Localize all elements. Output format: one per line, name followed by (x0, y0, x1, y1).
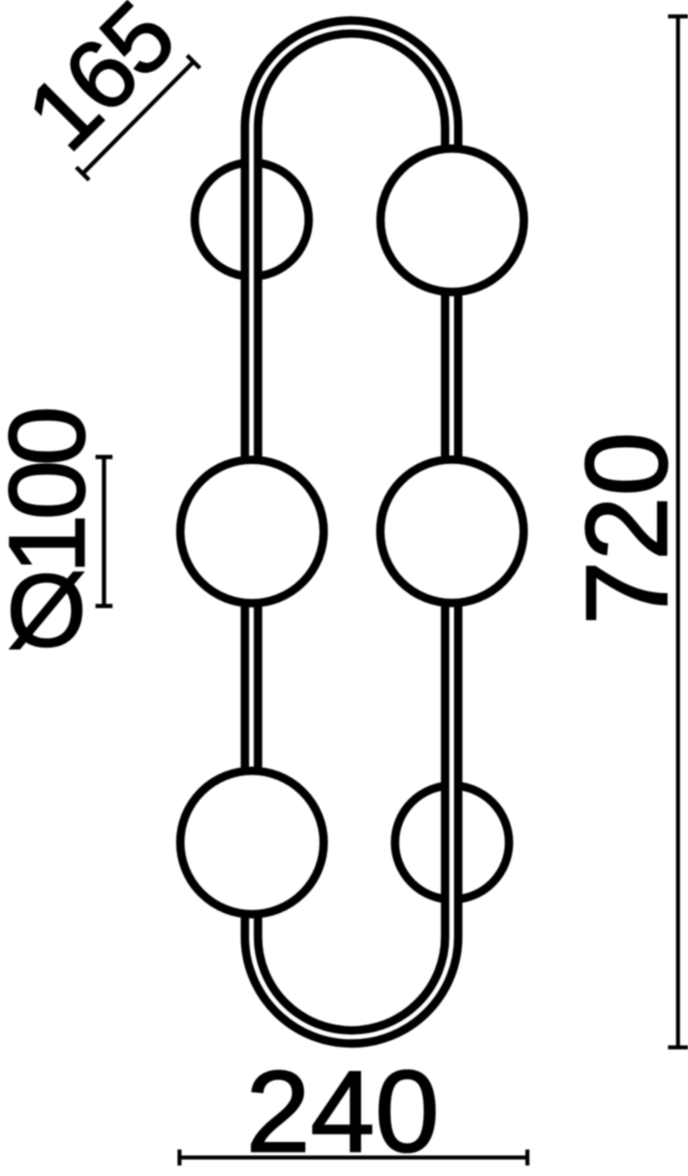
svg-text:100: 100 (0, 410, 107, 574)
sphere top-left (small, behind track) (195, 163, 309, 277)
sphere bottom-right (small, behind track) (395, 786, 509, 900)
sphere middle-left (large, in front of track) (180, 460, 323, 603)
sphere middle-right (large, in front of track) (380, 460, 523, 603)
track band (stadium double-line frame) (245, 21, 458, 1044)
svg-text:240: 240 (246, 1047, 440, 1176)
dimension line 240 (horizontal, bottom) (180, 1150, 528, 1166)
dimension line 720 (vertical, right) (668, 16, 688, 1047)
dimension line 165 (diagonal, top-left) (76, 55, 200, 180)
sphere top-right (large, in front of track) (381, 149, 524, 292)
svg-text:720: 720 (562, 432, 688, 626)
svg-text:Ø: Ø (6, 553, 86, 668)
sphere bottom-left (large, in front of track) (180, 771, 323, 914)
dimension line D100 (vertical, left) (96, 457, 113, 606)
